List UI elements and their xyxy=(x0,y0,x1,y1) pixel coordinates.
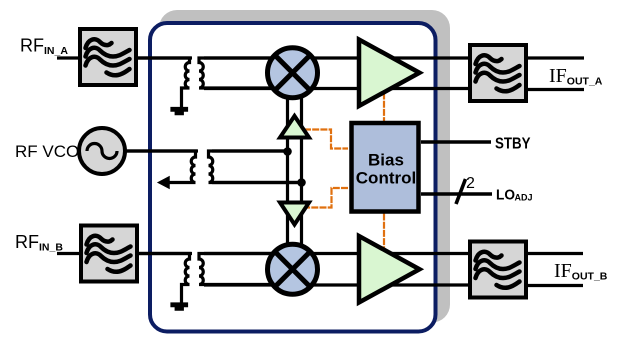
wire filterB to balun B xyxy=(136,252,192,255)
LO buffer B (down) xyxy=(280,203,309,225)
input filter A box xyxy=(80,29,136,85)
wire mixer A to amp A (bottom) xyxy=(310,87,364,90)
amplifier B xyxy=(359,236,420,303)
wire balun A secondary to mixer A (bottom) xyxy=(204,87,275,90)
svg-text:STBY: STBY xyxy=(495,136,531,153)
wire mixer A to amp A (top) xyxy=(310,56,364,59)
junction dot (LO right) xyxy=(297,178,306,187)
wire filter D to IF_OUT_B (top) xyxy=(526,252,583,255)
wire LO vertical left xyxy=(286,94,289,246)
wire RF_IN_B stub xyxy=(57,252,80,255)
svg-text:2: 2 xyxy=(466,175,475,192)
balun B primary winding xyxy=(136,254,190,304)
balun LO secondary winding xyxy=(209,151,302,183)
input filter B box xyxy=(81,226,137,282)
wire amp B to filter D (top) xyxy=(385,252,470,255)
wire RF_IN_A stub xyxy=(57,56,80,59)
svg-text:RF VCO: RF VCO xyxy=(15,142,79,161)
wire mixer B to amp B (top) xyxy=(310,252,364,255)
wire balun A secondary to mixer A (top) xyxy=(204,56,275,59)
wire filter D to IF_OUT_B (bottom) xyxy=(526,284,583,287)
balun B secondary winding xyxy=(199,254,272,285)
svg-text:IFOUT_B: IFOUT_B xyxy=(554,260,608,283)
VCO oscillator xyxy=(79,128,125,174)
output filter C box xyxy=(470,45,526,101)
wire amp B to filter D (bottom) xyxy=(385,283,470,286)
ground (balun A) xyxy=(171,108,188,115)
orange bias line to amp A xyxy=(383,93,385,122)
output filter D box xyxy=(470,242,526,298)
junction dot (LO left) xyxy=(283,147,292,156)
wire balun B secondary to mixer B (bottom) xyxy=(204,283,275,286)
wire STBY xyxy=(421,140,491,144)
wire filterA to balun A xyxy=(136,56,192,59)
svg-text:IFOUT_A: IFOUT_A xyxy=(549,65,603,88)
IC body outline xyxy=(150,23,436,332)
svg-text:Control: Control xyxy=(356,169,416,188)
balun A primary winding xyxy=(136,58,190,108)
orange bias line to LO buffer A xyxy=(304,130,348,149)
balun A secondary winding xyxy=(199,58,272,88)
arrow terminator (balun LO primary) xyxy=(159,177,170,188)
wire balun B secondary to mixer B (top) xyxy=(204,252,275,255)
orange bias line to LO buffer B xyxy=(306,188,348,208)
wire amp A to filter C (bottom) xyxy=(385,87,470,90)
amplifier A xyxy=(359,40,420,107)
svg-text:RFIN_B: RFIN_B xyxy=(15,232,63,254)
orange bias line to amp B xyxy=(383,214,385,249)
svg-text:RFIN_A: RFIN_A xyxy=(20,36,68,58)
wire LO_ADJ xyxy=(421,192,492,196)
mixer B xyxy=(268,244,318,294)
ground (balun B) xyxy=(171,303,188,310)
mixer A xyxy=(268,48,318,98)
svg-text:LO: LO xyxy=(496,187,515,203)
wire mixer B to amp B (bottom) xyxy=(310,283,364,286)
wire balun LO secondary top to LO line left xyxy=(212,149,289,152)
bias control block xyxy=(352,123,419,212)
wire filter C to IF_OUT_A (bottom) xyxy=(526,88,584,91)
wire filter C to IF_OUT_A (top) xyxy=(526,56,584,59)
svg-text:ADJ: ADJ xyxy=(515,193,533,203)
svg-text:Bias: Bias xyxy=(368,151,404,170)
wire VCO to balun LO xyxy=(125,149,198,152)
balun LO primary winding xyxy=(125,151,196,183)
IC drop shadow xyxy=(159,10,450,323)
LO buffer A (up) xyxy=(280,116,309,138)
wire amp A to filter C (top) xyxy=(385,56,470,59)
wire LO vertical right xyxy=(300,94,303,246)
wire balun LO secondary bottom to LO line right xyxy=(212,181,303,184)
bus width slash xyxy=(456,179,466,204)
